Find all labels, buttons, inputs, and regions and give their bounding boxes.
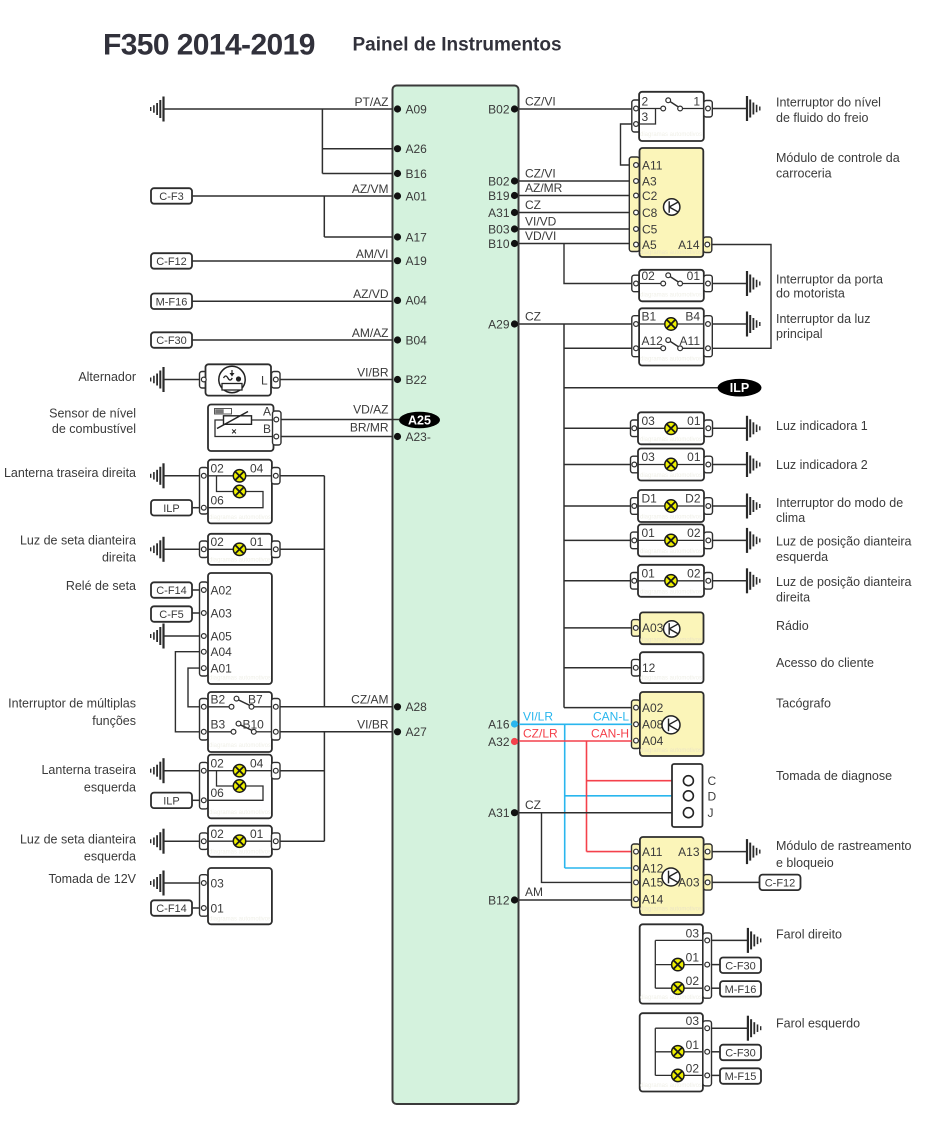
svg-text:Luz de posição dianteira: Luz de posição dianteira (776, 535, 912, 549)
svg-text:01: 01 (687, 269, 701, 283)
wire to pin A17 (324, 236, 392, 238)
svg-text:×: × (231, 427, 236, 437)
pin A04 of instrument panel (394, 294, 427, 308)
wire branch VD/VI down to door switch (564, 244, 632, 284)
svg-text:A23-: A23- (406, 430, 431, 444)
svg-text:VI/BR: VI/BR (357, 718, 389, 732)
svg-text:A03: A03 (211, 606, 233, 620)
wire branch vertical to A17 (323, 196, 325, 237)
svg-text:A25: A25 (408, 413, 431, 427)
svg-text:Luz indicadora 1: Luz indicadora 1 (776, 419, 868, 433)
svg-text:A02: A02 (211, 583, 233, 597)
pin B03 of instrument panel (right edge) (488, 222, 518, 236)
wire bus to tacógrafo A02 (564, 707, 632, 709)
svg-text:A01: A01 (406, 189, 428, 203)
svg-text:diagramas automotivos: diagramas automotivos (209, 515, 271, 521)
svg-text:diagramas automotivos: diagramas automotivos (640, 437, 702, 443)
svg-text:diagramas automotivos: diagramas automotivos (640, 250, 702, 256)
wire relé A04 to switch B3 (175, 652, 199, 732)
svg-text:diagramas automotivos: diagramas automotivos (640, 1083, 702, 1089)
left headlamp component (640, 1013, 712, 1091)
svg-text:Interruptor do modo de: Interruptor do modo de (776, 496, 903, 510)
svg-text:CZ/VI: CZ/VI (525, 167, 556, 181)
svg-text:A12: A12 (642, 334, 664, 348)
wire bus to lamp (564, 464, 631, 466)
alternator component (200, 364, 281, 395)
wire CZ/LR CAN-H pin A32 to tacógrafo A04 (red) (519, 740, 632, 742)
svg-text:diagramas automotivos: diagramas automotivos (640, 132, 702, 138)
svg-text:funções: funções (92, 714, 136, 728)
svg-text:esquerda: esquerda (84, 780, 136, 794)
customer access connector component (632, 652, 704, 683)
svg-text:J: J (708, 806, 714, 820)
svg-text:02: 02 (686, 1061, 700, 1075)
wire CZ pin A29 to headlamp switch B1 (519, 323, 632, 325)
wire VI/BR alternator L to pin B22 (280, 379, 393, 381)
ground (front right position lamp) (747, 568, 760, 593)
switch contact 2-1 (661, 98, 683, 111)
connector M-F15 (farol esquerdo) (720, 1068, 761, 1084)
svg-text:01: 01 (250, 827, 264, 841)
climate mode switch lamp (631, 490, 713, 522)
svg-text:direita: direita (776, 591, 810, 605)
svg-text:diagramas automotivos: diagramas automotivos (209, 810, 271, 816)
wire vertical left-turn bus (323, 732, 325, 841)
svg-text:A28: A28 (406, 700, 428, 714)
svg-text:PT/AZ: PT/AZ (354, 95, 388, 109)
wire PT/AZ ground to pin A09 (164, 108, 393, 110)
wire bus to lamp (564, 580, 631, 582)
svg-text:diagramas automotivos: diagramas automotivos (209, 917, 271, 923)
svg-text:Tacógrafo: Tacógrafo (776, 697, 831, 711)
svg-text:12: 12 (642, 661, 656, 675)
svg-text:M-F15: M-F15 (725, 1071, 757, 1083)
svg-text:C2: C2 (642, 189, 658, 203)
ground (rastreamento A13) (747, 839, 760, 864)
svg-text:01: 01 (687, 450, 701, 464)
svg-text:Painel de Instrumentos: Painel de Instrumentos (353, 35, 562, 56)
wire bus to lamp (564, 505, 631, 507)
svg-text:A13: A13 (678, 845, 700, 859)
wire lamp to ground (713, 539, 748, 541)
wire AM/AZ C-F30 to pin B04 (192, 339, 393, 341)
svg-text:diagramas automotivos: diagramas automotivos (640, 473, 702, 479)
wire headlamp switch B4 to ground (712, 323, 747, 325)
svg-text:02: 02 (687, 566, 701, 580)
svg-text:CZ: CZ (525, 198, 541, 212)
wire rastreamento A03 to C-F12 (712, 881, 759, 883)
wire lamp to ground (713, 464, 748, 466)
svg-text:01: 01 (642, 566, 656, 580)
wire farol direito 03 to ground (712, 939, 748, 941)
wire CZ/AM switch B7 to pin A28 (280, 706, 393, 708)
multifunction switch component (200, 692, 281, 752)
indicator lamp 1 (Luz indicadora 1) (631, 412, 713, 444)
svg-text:03: 03 (642, 414, 656, 428)
wire bus to radio A03 (564, 627, 632, 629)
svg-text:D: D (708, 789, 717, 803)
svg-text:A04: A04 (406, 294, 428, 308)
wire bus to acesso 12 (564, 667, 632, 669)
ground (door switch) (747, 271, 760, 296)
svg-text:C-F12: C-F12 (156, 256, 187, 268)
svg-text:AM: AM (525, 885, 543, 899)
wire VD/AZ fuel sensor A to A25 (281, 419, 399, 421)
svg-text:D2: D2 (685, 492, 701, 506)
wire módulo A14 to luz principal A11 (712, 245, 771, 349)
wire bus branch to A12 (564, 347, 632, 349)
ground (lanterna traseira direita) (151, 463, 164, 488)
wire bus to lamp (564, 427, 631, 429)
wire farol direito 01 to C-F30 (712, 964, 721, 966)
tail lamp right component (200, 460, 281, 524)
pin A01 of instrument panel (394, 189, 427, 203)
pin B04 of instrument panel (394, 333, 427, 347)
svg-text:03: 03 (211, 876, 225, 890)
wire front right turn lamp 01 to bus (280, 548, 324, 550)
svg-text:D1: D1 (642, 492, 658, 506)
connector ILP (lanterna direita) (151, 500, 192, 516)
svg-text:ILP: ILP (163, 796, 180, 808)
svg-text:01: 01 (211, 901, 225, 915)
wire CZ pin A31 to módulo C8 (519, 212, 629, 214)
main light switch component (632, 308, 713, 365)
svg-text:diagramas automotivos: diagramas automotivos (209, 743, 271, 749)
driver door switch component (632, 269, 713, 301)
svg-text:A29: A29 (488, 317, 510, 331)
brake fluid level switch component (632, 92, 713, 141)
wire AM pin B12 to rastreamento A14 (519, 899, 632, 901)
ground (indicator lamp 2 (Luz indicadora 2)) (747, 452, 760, 477)
front left turn lamp component (200, 826, 281, 857)
svg-text:CZ: CZ (525, 798, 541, 812)
svg-text:Alternador: Alternador (78, 370, 136, 384)
svg-text:C-F3: C-F3 (159, 191, 183, 203)
wire CZ/VI pin B02 to brake fluid switch (519, 108, 632, 110)
svg-text:A16: A16 (488, 717, 510, 731)
wire door switch to ground (712, 283, 747, 285)
wire CAN-H vertical branch (red) (586, 741, 588, 852)
svg-text:de combustível: de combustível (52, 422, 136, 436)
body control module component (629, 148, 712, 257)
svg-text:01: 01 (250, 535, 264, 549)
svg-text:CZ/AM: CZ/AM (351, 693, 388, 707)
ground (brake fluid switch) (747, 96, 760, 121)
turn signal relay component (200, 573, 272, 684)
svg-text:Tomada de diagnose: Tomada de diagnose (776, 769, 892, 783)
svg-text:e bloqueio: e bloqueio (776, 856, 834, 870)
ground (luz de seta dianteira esquerda) (151, 829, 164, 854)
wire ILP to pin 06 (192, 799, 200, 801)
wire C-F14 to tomada 01 (192, 907, 200, 909)
svg-text:A04: A04 (642, 734, 664, 748)
pin A28 of instrument panel (394, 700, 427, 714)
svg-text:B19: B19 (488, 189, 510, 203)
svg-text:AM/AZ: AM/AZ (352, 326, 389, 340)
svg-text:AZ/VM: AZ/VM (352, 182, 389, 196)
ground (headlamp switch) (747, 312, 760, 337)
svg-text:03: 03 (686, 926, 700, 940)
pin B16 of instrument panel (394, 167, 427, 181)
pin A23- of instrument panel (394, 430, 431, 444)
svg-text:ILP: ILP (730, 381, 749, 395)
ground (relé de seta) (151, 624, 164, 649)
connector M-F16 (151, 294, 192, 310)
connector M-F16 (farol direito) (720, 981, 761, 997)
wire lamp to ground (713, 505, 748, 507)
tracking and blocking module component (632, 837, 713, 915)
wire CAN-H branch to rastreamento A11 (red) (587, 851, 632, 853)
svg-text:B04: B04 (406, 333, 428, 347)
svg-text:01: 01 (687, 414, 701, 428)
ground (top left) (151, 97, 164, 122)
wire AZ/VD M-F16 to pin A04 (192, 300, 393, 302)
pin A19 of instrument panel (394, 254, 427, 268)
svg-text:do motorista: do motorista (776, 286, 845, 300)
ground (tomada de 12V) (151, 871, 164, 896)
svg-text:04: 04 (250, 756, 264, 770)
wire AZ/MR pin B19 to módulo C2 (519, 195, 629, 197)
wire ILP to pin 06 (192, 507, 200, 509)
front right position lamp (631, 565, 713, 597)
pin B02 of instrument panel (right edge) (488, 174, 518, 188)
svg-text:A01: A01 (211, 661, 233, 675)
svg-text:A11: A11 (642, 158, 663, 172)
svg-text:B7: B7 (248, 693, 263, 707)
wire CAN-L branch to diagnose D (cyan) (565, 795, 672, 797)
connector C-F12 (rastreamento) (760, 875, 801, 891)
pin A25 of instrument panel (oval marker) (399, 412, 440, 428)
svg-text:B10: B10 (243, 718, 265, 732)
svg-text:A03: A03 (678, 876, 700, 890)
wire brake switch 1 to ground (712, 108, 747, 110)
svg-text:A03: A03 (642, 621, 664, 635)
svg-text:Luz de seta dianteira: Luz de seta dianteira (20, 534, 136, 548)
wire ground to relé A05 (164, 635, 200, 637)
svg-text:diagramas automotivos: diagramas automotivos (640, 995, 702, 1001)
svg-text:VI/VD: VI/VD (525, 215, 557, 229)
wire VI/LR CAN-L pin A16 to tacógrafo A08 (cyan) (519, 723, 632, 725)
svg-text:A: A (263, 405, 271, 419)
indicator lamp 2 (Luz indicadora 2) (631, 449, 713, 481)
connector C-F14 (tomada) (151, 900, 192, 916)
svg-text:BR/MR: BR/MR (350, 421, 389, 435)
pin A31 of instrument panel (right edge) (488, 806, 518, 820)
wire ground to lanterna traseira direita pin 02 (164, 475, 200, 477)
wire CZ branch to rastreamento A15 (542, 813, 632, 883)
svg-text:A08: A08 (642, 718, 664, 732)
svg-text:diagramas automotivos: diagramas automotivos (640, 293, 702, 299)
wire CZ distribution bus (vertical) (563, 324, 565, 708)
wire ground to tomada 03 (164, 882, 200, 884)
svg-text:Rádio: Rádio (776, 619, 809, 633)
svg-text:AZ/MR: AZ/MR (525, 181, 563, 195)
svg-text:B3: B3 (211, 718, 226, 732)
pin B22 of instrument panel (394, 373, 427, 387)
instrument panel connector block (Painel de Instrumentos) (393, 86, 519, 1105)
svg-text:Interruptor do nível: Interruptor do nível (776, 96, 881, 110)
svg-text:A05: A05 (211, 629, 233, 643)
svg-text:C-F14: C-F14 (156, 585, 187, 597)
svg-text:direita: direita (102, 551, 136, 565)
pin B12 of instrument panel (right edge) (488, 893, 518, 907)
svg-text:03: 03 (686, 1014, 700, 1028)
svg-text:B12: B12 (488, 893, 510, 907)
svg-text:CZ/VI: CZ/VI (525, 95, 556, 109)
wire lanterna direita 04 to turn-signal bus (280, 475, 324, 477)
switch contact B2-B7 (229, 696, 254, 709)
switch contact B3-B10 (231, 721, 256, 734)
svg-text:B02: B02 (488, 102, 510, 116)
svg-text:esquerda: esquerda (84, 850, 136, 864)
connector C-F30 (151, 332, 192, 348)
svg-text:de fluido do freio: de fluido do freio (776, 111, 868, 125)
wire VI/BR switch B10 to pin A27 (280, 731, 393, 733)
ground (farol direito) (748, 928, 761, 953)
pin A16 of instrument panel (CAN-L, cyan) (488, 717, 518, 731)
svg-text:VD/AZ: VD/AZ (353, 402, 388, 416)
svg-text:diagramas automotivos: diagramas automotivos (640, 676, 702, 682)
ground (front left position lamp) (747, 528, 760, 553)
wire to pin B16 (322, 173, 392, 175)
svg-text:A14: A14 (642, 893, 664, 907)
ground (lanterna traseira esquerda) (151, 758, 164, 783)
ground (luz de seta dianteira direita) (151, 537, 164, 562)
wire AZ/VM C-F3 to pin A01 (192, 195, 393, 197)
wire lamp to ground (713, 427, 748, 429)
svg-text:A15: A15 (642, 876, 664, 890)
svg-text:A31: A31 (488, 206, 510, 220)
svg-text:1: 1 (693, 95, 700, 109)
svg-text:VI/BR: VI/BR (357, 366, 389, 380)
wire brake switch 3 to módulo A11 (621, 124, 632, 165)
svg-text:B02: B02 (488, 174, 510, 188)
wire CZ pin A31 to diagnose J (519, 812, 672, 814)
wire vertical right-turn bus (323, 476, 325, 707)
svg-text:02: 02 (211, 535, 225, 549)
svg-text:B10: B10 (488, 237, 510, 251)
svg-text:04: 04 (250, 462, 264, 476)
pin A31 of instrument panel (right edge) (488, 206, 518, 220)
svg-text:CAN-H: CAN-H (591, 727, 629, 741)
svg-text:diagramas automotivos: diagramas automotivos (640, 638, 702, 644)
svg-text:diagramas automotivos: diagramas automotivos (640, 907, 702, 913)
svg-text:A17: A17 (406, 230, 428, 244)
svg-text:A31: A31 (488, 806, 510, 820)
svg-text:M-F16: M-F16 (725, 984, 757, 996)
pin A27 of instrument panel (394, 725, 427, 739)
svg-text:B22: B22 (406, 373, 428, 387)
wire farol esquerdo 02 to M-F15 (712, 1074, 721, 1076)
wire lamp to ground (713, 580, 748, 582)
svg-text:02: 02 (686, 974, 700, 988)
svg-text:M-F16: M-F16 (156, 296, 188, 308)
svg-text:Luz de seta dianteira: Luz de seta dianteira (20, 833, 136, 847)
svg-text:A11: A11 (680, 334, 701, 348)
svg-text:C: C (708, 774, 717, 788)
svg-text:02: 02 (211, 827, 225, 841)
connector C-F12 (151, 253, 192, 269)
ground (climate mode switch lamp) (747, 494, 760, 519)
tail lamp left component (200, 755, 281, 819)
svg-text:A09: A09 (406, 102, 428, 116)
svg-text:B1: B1 (642, 310, 657, 324)
svg-text:diagramas automotivos: diagramas automotivos (640, 589, 702, 595)
svg-text:Farol direito: Farol direito (776, 928, 842, 942)
svg-text:A3: A3 (642, 174, 657, 188)
svg-text:06: 06 (211, 786, 225, 800)
wire ground to lanterna esquerda 02 (164, 770, 200, 772)
svg-text:01: 01 (686, 951, 700, 965)
radio component (632, 612, 704, 644)
svg-text:diagramas automotivos: diagramas automotivos (209, 558, 271, 564)
svg-text:Acesso do cliente: Acesso do cliente (776, 656, 874, 670)
wire VI/VD pin B03 to módulo C5 (519, 228, 629, 230)
wire farol esquerdo 01 to C-F30 (712, 1051, 721, 1053)
svg-text:diagramas automotivos: diagramas automotivos (640, 357, 702, 363)
connector C-F30 (farol direito) (720, 958, 761, 974)
wire CZ/VI pin B02 to módulo A3 (519, 180, 629, 182)
svg-text:C8: C8 (642, 206, 658, 220)
connector C-F30 (farol esquerdo) (720, 1045, 761, 1061)
svg-text:A02: A02 (642, 701, 664, 715)
svg-text:3: 3 (642, 110, 649, 124)
svg-text:C5: C5 (642, 222, 658, 236)
svg-text:03: 03 (642, 450, 656, 464)
switch contact 02-01 (661, 273, 683, 286)
svg-text:Lanterna traseira direita: Lanterna traseira direita (4, 466, 136, 480)
wire junction vertical to A26/B16 (321, 109, 323, 174)
right headlamp component (640, 924, 712, 1003)
svg-text:C-F14: C-F14 (156, 903, 187, 915)
svg-text:VI/LR: VI/LR (523, 710, 553, 724)
svg-text:Módulo de rastreamento: Módulo de rastreamento (776, 839, 912, 853)
svg-text:01: 01 (642, 526, 656, 540)
ground (alternator) (151, 367, 164, 392)
svg-text:C-F30: C-F30 (725, 960, 756, 972)
pin A29 of instrument panel (right edge) (488, 317, 518, 331)
svg-text:02: 02 (211, 462, 225, 476)
svg-text:CZ/LR: CZ/LR (523, 727, 558, 741)
svg-text:Módulo de controle da: Módulo de controle da (776, 151, 900, 165)
wire C-F5 to relé A03 (192, 612, 200, 614)
front left position lamp (631, 524, 713, 556)
svg-text:AZ/VD: AZ/VD (353, 287, 389, 301)
connector C-F14 (relé) (151, 582, 192, 598)
svg-text:A27: A27 (406, 725, 428, 739)
svg-text:carroceria: carroceria (776, 166, 832, 180)
svg-text:CZ: CZ (525, 310, 541, 324)
connector C-F5 (151, 606, 192, 622)
pin A32 of instrument panel (CAN-H, red) (488, 735, 518, 749)
pin B10 of instrument panel (right edge) (488, 237, 518, 251)
svg-text:B4: B4 (685, 310, 700, 324)
svg-text:A26: A26 (406, 142, 428, 156)
svg-text:diagramas automotivos: diagramas automotivos (640, 748, 702, 754)
ground (farol esquerdo) (748, 1016, 761, 1041)
pin A17 of instrument panel (394, 230, 427, 244)
svg-text:Farol esquerdo: Farol esquerdo (776, 1017, 860, 1031)
svg-text:diagramas automotivos: diagramas automotivos (640, 515, 702, 521)
wire bus branch to ILP (564, 387, 718, 389)
svg-text:L: L (261, 374, 268, 388)
wire VD/VI pin B10 to módulo A5 (519, 243, 629, 245)
svg-text:B: B (263, 422, 271, 436)
svg-text:Interruptor de múltiplas: Interruptor de múltiplas (8, 697, 136, 711)
ground (indicator lamp 1 (Luz indicadora 1)) (747, 416, 760, 441)
svg-text:ILP: ILP (163, 503, 180, 515)
connector ILP (lanterna esquerda) (151, 793, 192, 809)
